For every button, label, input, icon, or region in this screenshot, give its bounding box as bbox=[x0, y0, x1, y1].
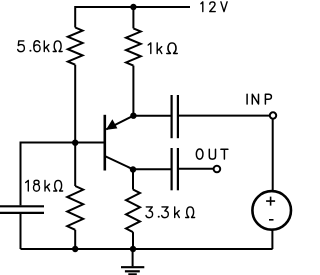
resistor R2 1k zigzag bbox=[126, 28, 141, 65]
junction dot 3.3k ground bbox=[130, 246, 136, 252]
transistor Q1 emitter arrowhead bbox=[106, 119, 118, 130]
transistor Q1 collector diagonal bbox=[106, 156, 134, 169]
wire emitter node to C1 bbox=[133, 115, 170, 117]
resistor R3 18k zigzag bbox=[67, 186, 83, 230]
ground bar 2 bbox=[125, 270, 140, 272]
wire base from bypass branch to transistor bbox=[21, 142, 104, 144]
source V1 minus sign bbox=[269, 219, 274, 221]
resistor R4 3.3k zigzag bbox=[126, 190, 140, 233]
transistor Q1 emitter diagonal bbox=[106, 116, 133, 130]
terminal INP open circle bbox=[270, 112, 276, 118]
label node OUT bbox=[196, 149, 228, 159]
junction dot base node bbox=[72, 140, 78, 146]
capacitor C1 input left plate bbox=[171, 95, 173, 138]
label node INP bbox=[247, 94, 271, 104]
label 12V supply bbox=[201, 2, 227, 12]
junction dot 18k ground bbox=[72, 246, 78, 252]
terminal OUT open circle bbox=[214, 166, 221, 173]
wire R1 top lead from rail bbox=[74, 6, 76, 28]
ground bar 1 bbox=[121, 266, 144, 268]
label value 1 kOhm bbox=[148, 43, 177, 54]
ground bar 3 bbox=[128, 273, 137, 275]
capacitor C1 input right plate bbox=[177, 95, 179, 138]
wire C3 to ground rail bbox=[20, 214, 22, 249]
wire R4 bottom lead to ground rail bbox=[132, 232, 134, 249]
wire ground bottom rail bbox=[21, 248, 273, 250]
transistor Q1 base bar bbox=[104, 115, 107, 171]
wire source bottom lead bbox=[271, 230, 273, 249]
capacitor C3 bypass top plate bbox=[0, 205, 44, 207]
wire R3 top lead from base node bbox=[74, 143, 76, 186]
wire INP terminal down to source bbox=[272, 119, 274, 191]
wire C2 to OUT terminal bbox=[179, 168, 214, 170]
wire R2 bottom lead to emitter node bbox=[132, 66, 134, 116]
label value 3.3 kOhm bbox=[146, 207, 195, 218]
label value 18 kOhm bbox=[26, 180, 63, 191]
source V1 circle bbox=[252, 191, 291, 230]
capacitor C3 bypass bottom plate bbox=[0, 212, 44, 214]
junction dot emitter node bbox=[130, 113, 136, 119]
wire R1 bottom lead to base node bbox=[74, 65, 76, 143]
capacitor C2 output right plate bbox=[177, 148, 179, 190]
source V1 plus sign bbox=[266, 197, 275, 206]
wire R4 top lead from collector node bbox=[132, 169, 134, 189]
wire R3 bottom lead to ground rail bbox=[74, 230, 76, 249]
resistor R1 5.6k zigzag bbox=[68, 28, 83, 65]
wire +12V top rail bbox=[75, 6, 190, 8]
ground stem bbox=[132, 249, 134, 266]
wire base branch down to C3 bbox=[20, 142, 22, 206]
capacitor C2 output left plate bbox=[171, 148, 173, 190]
junction dot rail/R2 bbox=[130, 4, 136, 10]
label value 5.6 kOhm bbox=[18, 41, 62, 52]
junction dot collector node bbox=[130, 166, 136, 172]
wire C1 to INP terminal bbox=[179, 115, 270, 117]
wire R2 top lead from rail junction bbox=[132, 7, 134, 28]
wire collector node to C2 bbox=[133, 168, 171, 170]
